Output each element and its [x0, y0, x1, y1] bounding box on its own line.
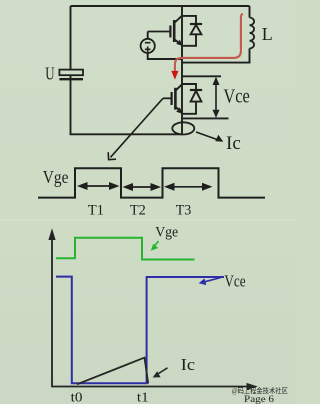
- svg-text:U: U: [45, 64, 54, 84]
- svg-text:Vge: Vge: [43, 167, 69, 187]
- svg-text:Page 6: Page 6: [244, 394, 274, 404]
- svg-text:Ic: Ic: [226, 133, 241, 154]
- svg-text:Vce: Vce: [223, 86, 249, 108]
- svg-text:Vge: Vge: [155, 224, 178, 240]
- svg-text:t1: t1: [137, 391, 149, 404]
- svg-text:T3: T3: [176, 202, 192, 218]
- svg-text:Ic: Ic: [181, 355, 196, 374]
- svg-text:t0: t0: [71, 391, 83, 404]
- svg-text:T1: T1: [88, 202, 104, 218]
- svg-text:T2: T2: [130, 202, 146, 218]
- svg-text:L: L: [262, 24, 273, 44]
- svg-text:Vce: Vce: [224, 272, 245, 291]
